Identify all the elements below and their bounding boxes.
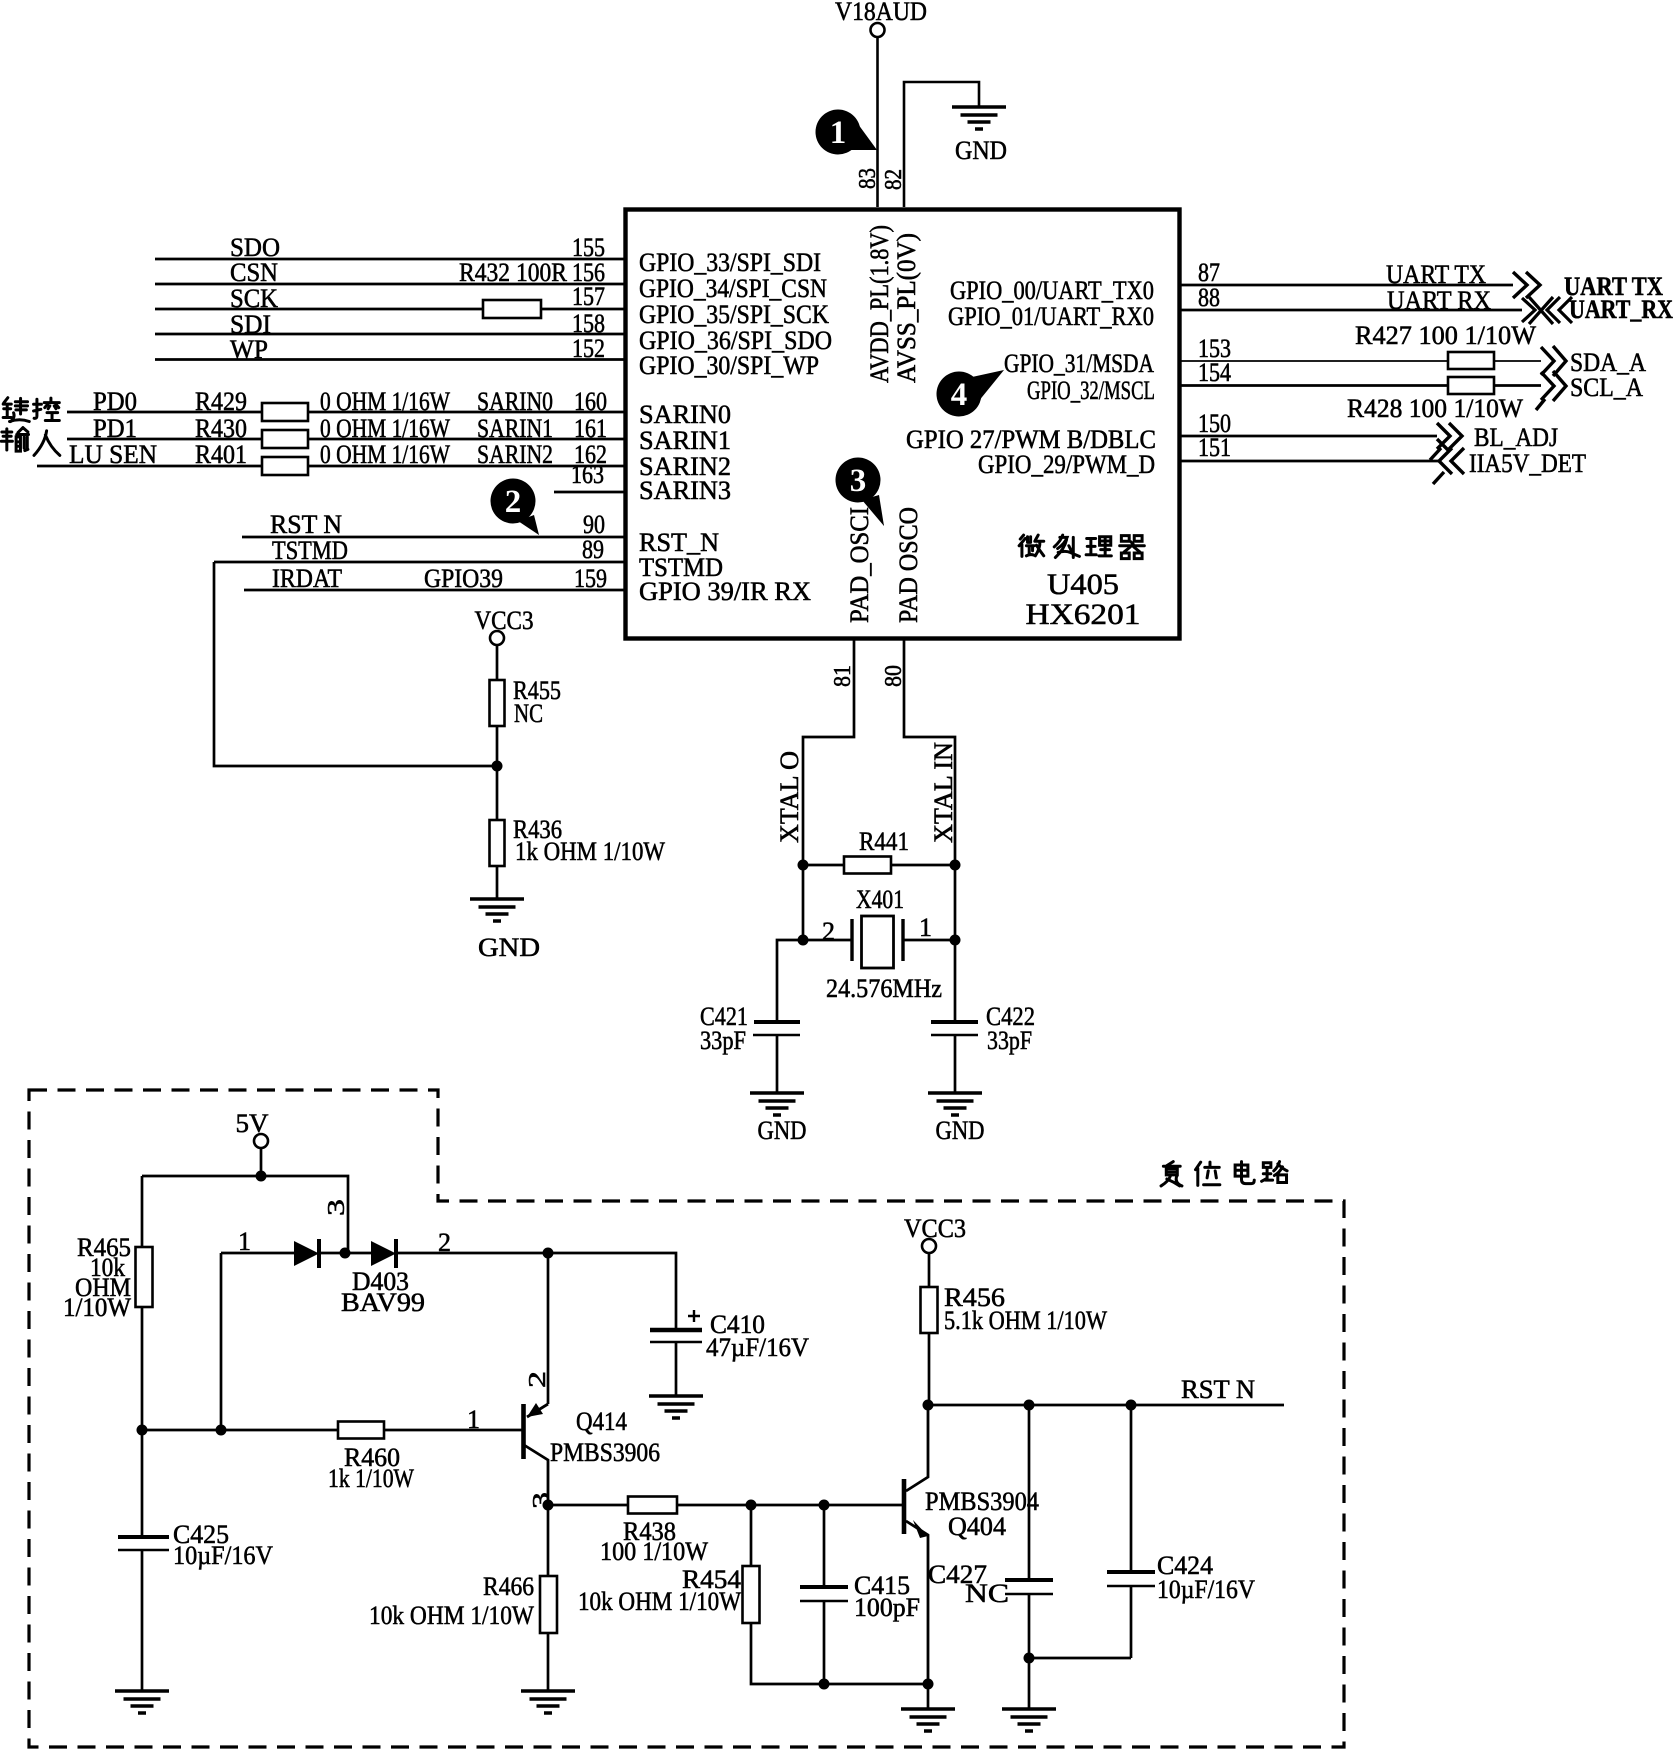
svg-text:10µF/16V: 10µF/16V [1157,1575,1255,1604]
IC pin label GPIO_32/MSCL [1027,376,1155,405]
node junction D403 pin1 branch [216,1425,227,1436]
node junction C424 tap [1126,1400,1137,1411]
pin number 88 [1198,283,1220,312]
value label R455 NC [513,676,561,728]
ground GND (below C421) [750,1093,807,1145]
svg-text:PMBS3906: PMBS3906 [550,1438,660,1467]
resistor R454 [743,1566,760,1623]
IC label 微处理器 (microprocessor) [1019,535,1144,559]
wire R401 to pin 162 [308,465,625,468]
svg-text:SARIN0: SARIN0 [477,387,553,416]
svg-text:GPIO_35/SPI_SCK: GPIO_35/SPI_SCK [639,300,829,329]
wire pin 151 IIA5V_DET [1181,460,1438,463]
IC pin label PAD OSCO rotated [894,507,923,623]
svg-text:82: 82 [881,169,907,190]
svg-text:U405: U405 [1047,568,1119,601]
value label R438 100 1/10W [600,1517,708,1566]
IC pin label GPIO_35/SPI_SCK [639,300,829,329]
node junction crystal pin2 [798,935,809,946]
wire R427 to SDA_A arrow [1494,360,1541,362]
svg-text:1/10W: 1/10W [63,1293,131,1322]
svg-text:VCC3: VCC3 [475,606,534,635]
pin number 2 (Q414) rotated [525,1371,551,1388]
svg-text:160: 160 [574,387,607,416]
svg-text:SCL_A: SCL_A [1570,373,1643,402]
svg-text:AVSS_PL(0V): AVSS_PL(0V) [892,233,921,383]
pin number 161 [574,414,607,443]
node junction Q414 collector [543,1500,554,1511]
reset circuit dashed border [29,1090,1344,1747]
value label R454 10k OHM 1/10W [578,1565,741,1616]
net label PD1 [93,414,137,443]
node junction D403 common [340,1248,351,1259]
svg-text:152: 152 [572,334,605,363]
net label SDA_A [1570,348,1646,377]
net label IIA5V_DET [1469,449,1586,478]
wire D403 pin1 branch down [220,1253,223,1430]
svg-text:NC: NC [514,699,543,728]
wire TSTMD to pin 89 [214,561,625,564]
svg-text:GPIO_31/MSDA: GPIO_31/MSDA [1004,349,1154,378]
svg-text:Q404: Q404 [948,1512,1006,1541]
svg-text:1k OHM 1/10W: 1k OHM 1/10W [515,837,665,866]
pin number 3 (Q414) rotated [529,1492,555,1509]
svg-text:0 OHM 1/16W: 0 OHM 1/16W [320,414,450,443]
value label R432 100R [459,258,568,287]
net label RST N [1181,1375,1255,1404]
wire pin 88 UART RX [1181,309,1522,312]
pin number 152 [572,334,605,363]
IC pin label GPIO 27/PWM B/DBLC [906,425,1156,454]
value label R428 100 1/10W [1347,394,1523,423]
svg-text:161: 161 [574,414,607,443]
wire R466 branch [547,1505,550,1576]
value label R466 10k OHM 1/10W [369,1572,534,1630]
pin number 159 [574,564,607,593]
svg-text:0 OHM 1/16W: 0 OHM 1/16W [320,440,450,469]
net label UART RX (on wire) [1387,286,1491,315]
pin number 158 [572,309,605,338]
svg-text:XTAL O: XTAL O [775,751,804,843]
svg-text:GND: GND [478,933,540,962]
wire pin 82 to ground [904,82,979,207]
svg-text:5.1k OHM 1/10W: 5.1k OHM 1/10W [944,1306,1107,1335]
wire C427 to ground [1028,1594,1031,1709]
pin number 163 [571,460,604,489]
wire C424 branch [1130,1405,1133,1572]
wire SDO to pin 155 [155,258,625,261]
resistor R432 [483,300,541,318]
off-page arrow SCL_A [1536,371,1566,410]
svg-text:IIA5V_DET: IIA5V_DET [1469,449,1586,478]
svg-text:1: 1 [830,115,847,151]
wire D403 pin2 to C410/Q414 [396,1253,676,1330]
svg-text:2: 2 [525,1371,551,1388]
ref label R430 [195,414,247,443]
IC pin label RST_N [639,528,719,557]
pin number 87 [1198,258,1220,287]
svg-text:159: 159 [574,564,607,593]
net label PD0 [93,387,137,416]
svg-text:PD1: PD1 [93,414,137,443]
capacitor C415 [800,1587,848,1601]
wire Q404 emitter to ground [927,1684,930,1709]
svg-text:PAD OSCO: PAD OSCO [894,507,923,623]
svg-text:1: 1 [919,913,932,942]
wire D403 anode stub [221,1252,294,1255]
svg-text:2: 2 [505,484,522,520]
resistor R428 [1448,377,1494,394]
ground GND (below C410) [649,1396,703,1418]
resistor R455 [490,680,505,726]
value label 0 OHM 1/16W SARIN1 [320,414,553,443]
svg-text:33pF: 33pF [987,1026,1032,1055]
resistor R401 [262,457,308,475]
svg-text:VCC3: VCC3 [904,1214,966,1243]
transistor Q404 PMBS3904 [904,1405,928,1684]
wire C410 to ground [675,1342,678,1396]
wire VCC3 to R456 [928,1253,931,1287]
svg-text:SCK: SCK [230,284,278,313]
value label R456 5.1k OHM 1/10W [944,1283,1107,1335]
label 复位电路 (reset circuit) [1161,1162,1287,1186]
IC pin label SARIN0 [639,400,731,429]
svg-text:154: 154 [1198,358,1231,387]
net label CSN [230,258,278,287]
value label R427 100 1/10W [1355,321,1536,350]
node junction C424 bottom rail [1024,1653,1035,1664]
wire RST_N rail [928,1404,1284,1407]
svg-text:Q414: Q414 [576,1407,627,1436]
wire 5V down [260,1148,263,1176]
svg-text:UART TX: UART TX [1386,260,1486,289]
svg-text:R441: R441 [859,827,909,856]
ground GND (below C425) [115,1691,169,1713]
wire base rail R465 to Q414 [142,1429,338,1432]
wire TSTMD branch down to divider junction [214,562,497,766]
resistor R441 [844,857,891,874]
svg-text:2: 2 [822,917,835,946]
svg-text:3: 3 [850,463,867,499]
resistor R430 [262,430,308,448]
svg-text:CSN: CSN [230,258,278,287]
resistor R438 [628,1497,677,1514]
wire R432 to pin 157 [541,308,625,311]
IC pin label AVDD_PL(1.8V) rotated [865,225,894,383]
pin number 1 (D403) [238,1227,251,1256]
value label C427 NC [928,1560,1009,1608]
net label UART TX (destination) [1564,272,1663,301]
IC pin label GPIO_00/UART_TX0 [950,276,1154,305]
net label GPIO39 [424,564,503,593]
svg-text:X401: X401 [856,885,904,914]
wire RST_N to pin 90 [242,536,625,539]
wire pin 87 UART TX [1181,284,1513,287]
transistor Q414 PMBS3906 [524,1403,549,1505]
off-page arrow BL_ADJ [1430,423,1462,460]
pin number 81 rotated [830,665,856,687]
capacitor C425 [118,1537,169,1550]
wire PD1 to R430 [67,438,262,441]
power node VCC3 (left) [475,606,534,645]
ref label PMBS3904 Q404 [925,1487,1039,1541]
svg-text:PAD_OSCI: PAD_OSCI [845,507,874,623]
wire C415 to bottom rail [824,1601,928,1684]
svg-text:V18AUD: V18AUD [835,0,927,26]
value label C415 100pF [854,1571,920,1622]
svg-text:GPIO_01/UART_RX0: GPIO_01/UART_RX0 [948,302,1154,331]
pin number 162 [574,440,607,469]
node junction R465/C425 [137,1425,148,1436]
IC pin label AVSS_PL(0V) rotated [892,233,921,383]
wire R438 to Q404 base [677,1504,904,1507]
svg-text:AVDD_PL(1.8V): AVDD_PL(1.8V) [865,225,894,383]
wire R428 to SCL_A arrow [1494,384,1541,387]
svg-text:GPIO_34/SPI_CSN: GPIO_34/SPI_CSN [639,274,827,303]
ground GND (top, AVSS) [952,107,1007,165]
svg-text:SARIN1: SARIN1 [477,414,553,443]
svg-text:XTAL IN: XTAL IN [929,742,958,843]
svg-text:GND: GND [955,136,1007,165]
pin number 154 [1198,358,1231,387]
IC pin label GPIO_31/MSDA [1004,349,1154,378]
IC pin label SARIN1 [639,426,731,455]
off-page arrow UART TX [1513,272,1540,298]
value label C421 33pF [700,1002,748,1055]
svg-text:BL_ADJ: BL_ADJ [1474,423,1558,452]
resistor R456 [921,1287,938,1333]
value label C422 33pF [986,1002,1035,1055]
wire R429 to pin 160 [308,411,625,414]
net label RST N [270,510,342,539]
crystal X401 [852,916,903,968]
wire R441 left [803,864,844,867]
resistor R427 [1448,352,1494,369]
wire WP to pin 152 [155,358,625,361]
svg-text:NC: NC [965,1579,1009,1608]
wire R455 to R436 [496,726,499,820]
pin number 153 [1198,334,1231,363]
svg-text:GPIO39: GPIO39 [424,564,503,593]
wire V18AUD to pin 83 [876,37,879,207]
wire pin 153 to R427 [1181,360,1448,362]
node junction C415 tap [819,1500,830,1511]
IC pin label GPIO_29/PWM_D [978,450,1155,479]
wire crystal pin1 to C422 [954,940,957,1022]
wire Q414 emitter vertical [547,1253,550,1404]
svg-text:LU SEN: LU SEN [69,440,157,469]
resistor R436 [490,820,505,866]
ground GND (below Q404) [901,1709,955,1731]
pin number 155 [572,233,605,262]
svg-text:80: 80 [881,665,907,687]
net label XTAL_O rotated [775,751,804,843]
wire XTAL_IN down to crystal [903,865,955,940]
IC pin label GPIO_01/UART_RX0 [948,302,1154,331]
ground GND (below R436) [470,899,540,962]
pin number 83 [855,168,881,189]
capacitor C422 [931,1022,978,1035]
off-page arrow UART RX [1522,297,1572,324]
svg-text:10k OHM 1/10W: 10k OHM 1/10W [578,1587,741,1616]
ground GND (below R466) [521,1691,575,1713]
IC pin label GPIO_33/SPI_SDI [639,248,821,277]
net label XTAL_IN rotated [929,742,958,843]
resistor R429 [262,403,308,421]
svg-text:83: 83 [855,168,881,189]
wire pin 154 to R428 [1181,384,1448,387]
node junction R456/Q404 collector [923,1400,934,1411]
IC pin label GPIO 39/IR RX [639,577,811,606]
IC pin label SARIN2 [639,452,731,481]
svg-text:R427 100 1/10W: R427 100 1/10W [1355,321,1536,350]
svg-text:163: 163 [571,460,604,489]
svg-text:3: 3 [324,1199,350,1216]
svg-text:4: 4 [951,377,968,413]
node junction bottom rail C415 [819,1679,830,1690]
svg-text:10k OHM 1/10W: 10k OHM 1/10W [369,1601,534,1630]
value label C425 10uF/16V [173,1520,273,1570]
wire C425 to ground [141,1550,144,1691]
net label SCK [230,284,278,313]
net label SCL_A [1570,373,1643,402]
pin number 3 (D403) rotated [324,1199,350,1216]
svg-text:R428 100 1/10W: R428 100 1/10W [1347,394,1523,423]
wire 5V rail [142,1176,348,1253]
pin number 2 (crystal) [822,917,835,946]
callout 3 [836,458,885,527]
wire pin 81 PAD_OSCI down [803,638,854,865]
node junction 5V rail [256,1171,267,1182]
wire R466 to ground [547,1633,550,1691]
wire C415 branch [823,1505,826,1587]
capacitor C427 [1005,1580,1053,1594]
wire C425 branch [141,1430,144,1537]
off-page arrow IIA5V_DET [1433,439,1464,484]
pin number 160 [574,387,607,416]
power node VCC3 (right) [904,1214,966,1253]
net label UART TX (on wire) [1386,260,1486,289]
net label IRDAT [272,564,342,593]
ground GND (below C427) [1002,1709,1056,1731]
capacitor C424 [1107,1572,1155,1586]
svg-text:WP: WP [230,335,268,364]
svg-text:88: 88 [1198,283,1220,312]
svg-text:UART RX: UART RX [1387,286,1491,315]
ref label D403 BAV99 [341,1267,425,1317]
pin number 90 [583,510,605,539]
resistor R465 [136,1247,153,1307]
wire C424 to bottom rail [1130,1586,1133,1658]
ref label Q414 PMBS3906 [550,1407,660,1467]
IC pin label SARIN3 [639,476,731,505]
svg-text:R466: R466 [483,1572,534,1601]
wire R454 to bottom rail [751,1623,824,1684]
wire C427 branch [1028,1405,1031,1580]
wire PD0 to R429 [67,411,262,414]
ref label R429 [195,387,247,416]
svg-text:47µF/16V: 47µF/16V [706,1333,809,1362]
node junction emitter rail [543,1248,554,1259]
wire pin 150 BL_ADJ [1181,435,1437,438]
net label TSTMD [272,536,348,565]
pin number 156 [572,258,605,287]
wire IRDAT to pin 159 [244,589,625,592]
value label R465 10k OHM 1/10W [63,1233,131,1322]
svg-text:GPIO 39/IR RX: GPIO 39/IR RX [639,577,811,606]
net label BL_ADJ [1474,423,1558,452]
capacitor C410 polarized [650,1310,702,1342]
svg-text:1k 1/10W: 1k 1/10W [328,1464,414,1493]
svg-text:81: 81 [830,665,856,687]
svg-text:33pF: 33pF [700,1026,746,1055]
wire R460 to Q414 base [384,1429,523,1432]
svg-text:RST N: RST N [270,510,342,539]
pin number 89 [582,535,604,564]
pin number 151 [1198,433,1231,462]
svg-text:R430: R430 [195,414,247,443]
pin number 157 [572,282,605,311]
value label C410 47uF/16V [706,1310,809,1362]
pin number 2 (D403) [438,1228,451,1257]
pin number 80 rotated [881,665,907,687]
svg-text:10µF/16V: 10µF/16V [173,1541,273,1570]
net label SDI [230,310,271,339]
node junction XTAL_IN / R441 [950,860,961,871]
svg-text:GPIO_29/PWM_D: GPIO_29/PWM_D [978,450,1155,479]
node junction divider [492,761,503,772]
resistor R460 [338,1422,384,1439]
node junction Q404 emitter bottom [923,1679,934,1690]
node junction crystal pin1 [950,935,961,946]
value label 0 OHM 1/16W SARIN0 [320,387,553,416]
ground GND (below C422) [928,1093,985,1145]
IC pin label GPIO_36/SPI_SDO [639,326,832,355]
svg-text:GPIO_32/MSCL: GPIO_32/MSCL [1027,376,1155,405]
wire VCC3 to R455 [496,645,499,680]
wire C421 to ground [776,1035,779,1093]
value label R436 1k OHM 1/10W [513,815,665,866]
svg-text:100pF: 100pF [854,1593,920,1622]
svg-text:RST N: RST N [1181,1375,1255,1404]
ref label R401 [195,440,247,469]
wire R436 to ground [496,866,499,899]
value label 0 OHM 1/16W SARIN2 [320,440,553,469]
node junction R454 tap [746,1500,757,1511]
wire R465 bottom to base rail [141,1307,144,1430]
diode D403b [371,1239,396,1268]
svg-text:24.576MHz: 24.576MHz [826,974,942,1003]
pin number 150 [1198,409,1231,438]
off-page arrow SDA_A [1541,346,1566,376]
svg-text:BAV99: BAV99 [341,1288,425,1317]
node junction XTAL_O / R441 [798,860,809,871]
value label C424 10uF/16V [1157,1551,1255,1604]
svg-text:SARIN0: SARIN0 [639,400,731,429]
callout 1 [816,110,878,155]
svg-text:GPIO_30/SPI_WP: GPIO_30/SPI_WP [639,351,819,380]
op IC U405 microprocessor box [626,210,1180,639]
svg-text:R429: R429 [195,387,247,416]
net label UART_RX (destination) [1569,295,1673,324]
value label R460 1k 1/10W [328,1443,414,1493]
svg-text:GPIO_00/UART_TX0: GPIO_00/UART_TX0 [950,276,1154,305]
wire R441 right [891,864,955,867]
resistor R466 [540,1576,557,1633]
svg-text:TSTMD: TSTMD [272,536,348,565]
capacitor C421 [753,1022,800,1035]
wire R454 branch [750,1505,753,1566]
